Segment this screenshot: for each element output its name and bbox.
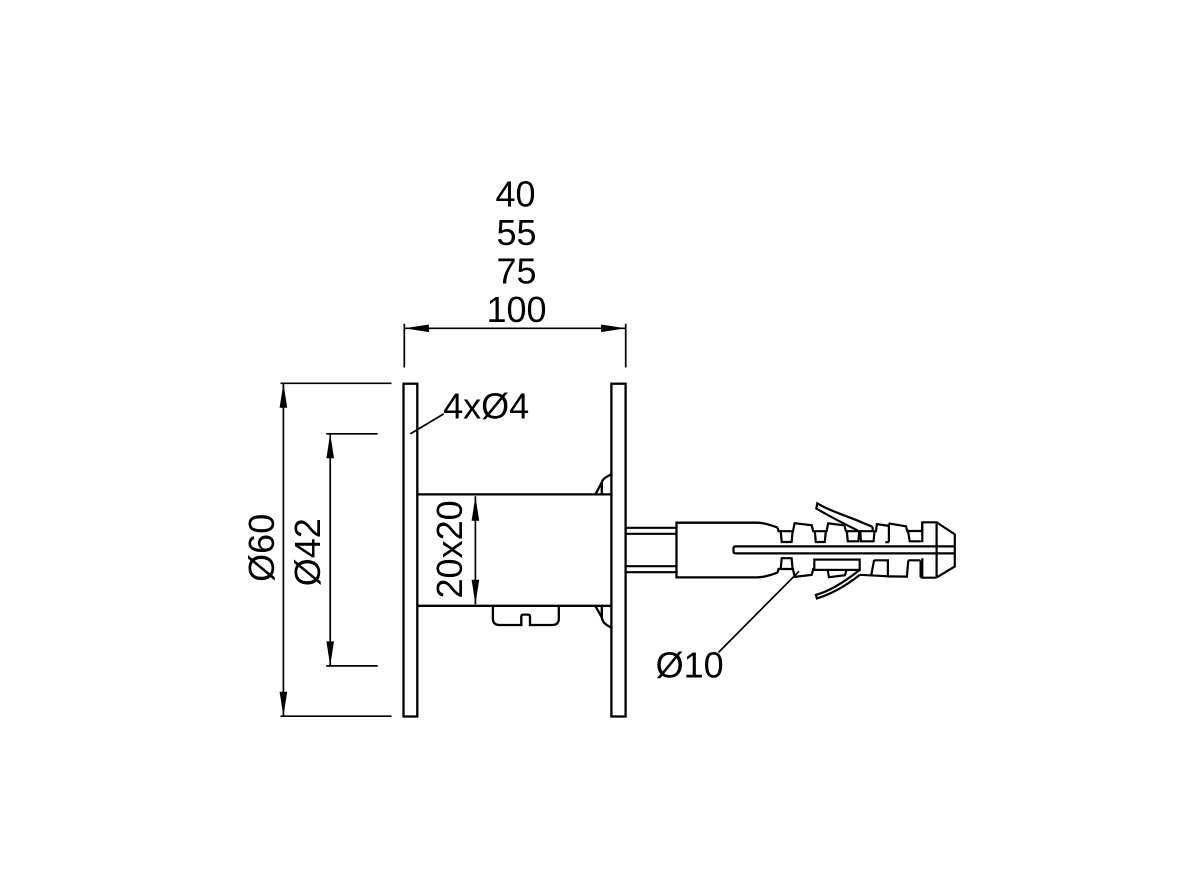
boss fillet bottom at right plate <box>596 606 612 628</box>
svg-text:100: 100 <box>486 289 546 330</box>
label 4xO4 with leader <box>443 386 529 427</box>
left mounting plate <box>404 384 418 717</box>
svg-text:Ø60: Ø60 <box>241 514 282 582</box>
bottom anti-rotation fin <box>816 570 860 599</box>
svg-text:Ø10: Ø10 <box>656 645 724 686</box>
top anti-rotation fin <box>816 503 872 531</box>
dimension 100 (top) <box>404 324 625 368</box>
svg-text:55: 55 <box>496 212 536 253</box>
threaded rod between plate and plug <box>626 528 677 572</box>
wall plug top profile (ribs) <box>778 522 955 577</box>
long floor to deep pockets <box>860 575 888 577</box>
boss fillet top at right plate <box>596 474 612 494</box>
svg-text:4xØ4: 4xØ4 <box>443 386 529 427</box>
dimension O60 (left outer) <box>281 383 392 716</box>
dimension O42 (left inner) <box>326 434 378 666</box>
label O10 with leader <box>656 645 724 686</box>
expansion slot <box>734 546 955 553</box>
svg-text:20x20: 20x20 <box>429 500 470 598</box>
right mounting plate <box>611 384 625 717</box>
svg-text:Ø42: Ø42 <box>287 518 328 586</box>
top pockets <box>781 531 793 542</box>
bottom tooth through window <box>828 570 847 577</box>
svg-text:40: 40 <box>495 174 535 215</box>
wall plug collar <box>677 523 778 578</box>
dimension 20x20 (middle) <box>474 496 476 604</box>
square tube 20x20 body <box>417 494 611 605</box>
wall plug bottom profile (ribs) <box>778 558 937 578</box>
fin window rectangle <box>814 560 859 570</box>
cable clip tab under tube <box>493 606 559 625</box>
svg-text:75: 75 <box>496 250 536 291</box>
dimension texts 40 55 75 100 <box>486 174 546 330</box>
